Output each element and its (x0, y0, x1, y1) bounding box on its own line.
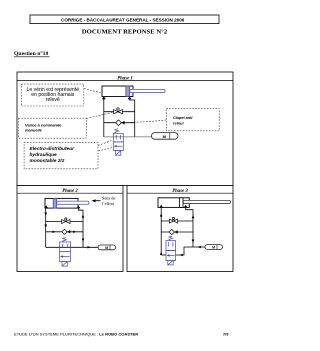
flow arrow left at pump phase3 (197, 246, 200, 249)
wire: phase3 right port L (176, 247, 206, 255)
svg-text:ETUDE D’UN SYSTEME PLURITECHNI: ETUDE D’UN SYSTEME PLURITECHNIQUE : Le R… (14, 332, 138, 337)
callout: le verin est represente (21, 84, 84, 106)
wire: phase3 left port (161, 254, 166, 256)
wire: phase3 left vertical (160, 207, 162, 255)
cylinder phase 2 (45, 198, 89, 208)
svg-text:monostable 2/2: monostable 2/2 (30, 158, 65, 164)
wire: phase2 bottom to pump (46, 246, 98, 248)
svg-text:Question n°18: Question n°18 (14, 50, 49, 57)
svg-text:Phase 3: Phase 3 (172, 189, 188, 194)
svg-text:Clapet anti: Clapet anti (173, 116, 193, 120)
check valve phase 1 (116, 120, 125, 126)
svg-text:l’effort: l’effort (102, 201, 115, 206)
svg-text:hydraulique: hydraulique (30, 152, 58, 158)
phase 3 frame (127, 186, 233, 272)
header banner box (30, 15, 219, 24)
wire: phase2 left vertical (45, 208, 47, 247)
pump unit M phase 3 (205, 245, 223, 250)
pointer to cylinder (84, 89, 102, 94)
cylinder (verin) phase 1 (102, 86, 165, 97)
port arrow phase2 right (77, 205, 81, 208)
flow arrow to pump phase2 (87, 246, 90, 248)
manual valve phase 3 (169, 217, 177, 223)
wire: phase3 rung check valve (161, 231, 193, 233)
svg-text:M: M (105, 246, 108, 250)
svg-text:relevé: relevé (46, 97, 60, 103)
wire: phase3 rung manual valve (161, 220, 193, 222)
wire: phase2 rung manual valve (46, 221, 83, 223)
wire: phase2 right vertical with jog (79, 208, 84, 247)
port arrow phase3 right (184, 205, 188, 208)
electro-distributor 2/2 phase 1 (113, 129, 123, 156)
pump unit M phase 1 (152, 133, 179, 140)
question label (14, 50, 50, 57)
electro-distributor phase 3 (166, 236, 176, 265)
manual valve phase 2 (62, 218, 70, 224)
svg-text:Sens de: Sens de (102, 195, 116, 200)
wire: phase1 rung with manual valve (104, 111, 135, 113)
footer (14, 332, 229, 337)
svg-text:7/9: 7/9 (223, 332, 229, 337)
wire: phase2 rung check valve (46, 231, 83, 233)
wire: phase1 rung with check valve (104, 122, 135, 124)
check valve phase 3 (169, 229, 178, 234)
wire: phase1 left vertical (103, 97, 105, 137)
pump unit M phase 2 (98, 245, 116, 250)
flow arrow rung2 right (73, 231, 76, 233)
cylinder phase 3 (158, 198, 231, 208)
flow arrow up phase3 left b (160, 252, 163, 256)
flow arrow down phase2 left a (44, 213, 47, 217)
electro-distributor phase 2 (60, 238, 71, 267)
svg-text:Electro-distributeur: Electro-distributeur (30, 146, 76, 152)
pointer to manual valve (87, 112, 114, 118)
svg-text:Vanne à commande: Vanne à commande (25, 122, 62, 127)
check valve phase 2 (62, 229, 71, 234)
phase 1 frame (17, 72, 233, 186)
flow arrow down phase3 right (192, 240, 195, 244)
flow arrow up phase2 right (82, 214, 85, 218)
flow arrow left at distributor phase3 (179, 254, 182, 257)
port arrow phase2 left (44, 205, 48, 208)
pointers to distributor (98, 141, 111, 146)
manual valve phase 1 (114, 108, 123, 114)
callout: clapet anti retour (166, 108, 219, 130)
flow arrow up phase3 right (192, 215, 195, 219)
port arrow phase1 right (128, 96, 132, 99)
port arrow phase3 left (159, 205, 163, 208)
svg-text:Phase 2: Phase 2 (62, 189, 78, 194)
flow arrow rung2 left (52, 231, 55, 233)
svg-text:M: M (212, 246, 215, 250)
callout: electro-distributeur (24, 142, 98, 168)
port arrow phase1 left (102, 96, 106, 99)
sens de l'effort arrow (92, 195, 116, 206)
svg-text:retour: retour (173, 121, 184, 125)
svg-text:Phase 1: Phase 1 (117, 77, 133, 82)
callout: vanne a commande manuelle (19, 118, 87, 138)
wire: phase3 right vertical with jog (186, 208, 193, 247)
phase 2 frame (17, 186, 123, 272)
flow arrow down phase2 left b (44, 225, 47, 229)
flow arrow down phase2 right (82, 239, 85, 243)
flow arrow up phase3 left a (160, 213, 163, 217)
wire: phase1 bottom gray line to pump (104, 136, 152, 138)
svg-text:manuelle: manuelle (25, 128, 43, 133)
svg-text:DOCUMENT REPONSE N°2: DOCUMENT REPONSE N°2 (82, 28, 168, 35)
pointer to check valve (125, 120, 166, 123)
svg-text:CORRIGE - BACCALAUREAT GENERAL: CORRIGE - BACCALAUREAT GENERAL - SESSION… (61, 18, 185, 23)
wire: phase1 right vertical with jog (130, 97, 135, 137)
